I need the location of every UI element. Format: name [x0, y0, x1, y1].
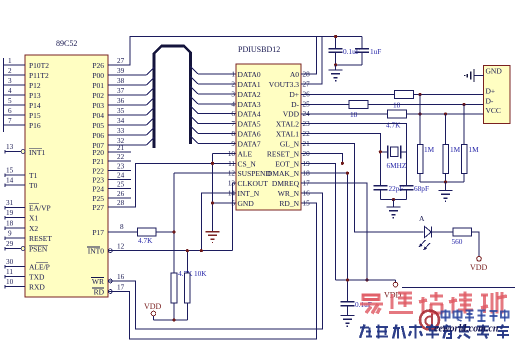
ground (reset cap) [340, 316, 354, 327]
wire EOT_N down to RC line [301, 163, 336, 280]
watermark red text 2nd char [389, 293, 413, 313]
svg-text:89C52: 89C52 [56, 39, 77, 48]
svg-text:GND: GND [486, 67, 503, 76]
svg-text:WR: WR [92, 277, 104, 286]
IC U1 89C52 body [25, 55, 108, 297]
wire P05 bus entry [108, 118, 154, 126]
svg-text:39: 39 [117, 67, 125, 75]
wire DATA1 bus exit [191, 76, 237, 84]
svg-text:PSEN: PSEN [29, 245, 48, 254]
wire VCC line to connector [406, 112, 483, 115]
watermark red text 3rd char [419, 292, 443, 314]
svg-text:1M: 1M [450, 145, 461, 154]
svg-text:PDIUSBD12: PDIUSBD12 [238, 45, 280, 54]
svg-text:P27: P27 [92, 203, 104, 212]
svg-text:3: 3 [8, 77, 12, 85]
wire VOUT3.3 up to top rail [301, 37, 322, 84]
junction CS_N tie [211, 162, 214, 165]
pin 4 DATA3 / pin 25 D- [231, 100, 310, 109]
capacitor 68pF [399, 184, 429, 200]
svg-text:13: 13 [228, 180, 236, 188]
watermark blue text char4 [409, 325, 422, 339]
svg-text:5: 5 [8, 97, 12, 105]
svg-text:16: 16 [117, 273, 125, 281]
svg-text:RD_N: RD_N [279, 199, 299, 208]
pin 2 DATA1 / pin 27 VOUT3.3 [231, 80, 310, 89]
ground (top caps) [329, 65, 343, 81]
watermark blue text char8 [477, 325, 489, 339]
pin 11 CS_N / pin 19 EOT_N [228, 159, 310, 168]
svg-text:35: 35 [117, 107, 125, 115]
pin 9 DATA7 / pin 21 GL_N [231, 140, 310, 149]
capacitor 0.1uF (reset) [340, 278, 371, 315]
pin 2 P11 [4, 67, 49, 80]
LED D1 (GoodLink) [419, 214, 432, 250]
svg-text:VCC: VCC [486, 106, 501, 115]
pin 7 DATA5 / pin 23 XTAL2 [231, 120, 310, 129]
wire P17 resistor to SUSPEND junction [156, 231, 174, 233]
wire CLKOUT down to INT0 [233, 183, 237, 250]
pin 28 P27 name/number [92, 199, 124, 212]
svg-text:1: 1 [8, 57, 12, 65]
watermark red text 5th char [481, 292, 507, 314]
svg-text:INT_N: INT_N [238, 189, 260, 198]
svg-text:68pF: 68pF [414, 184, 429, 193]
wire VCC junction down to 1M R2 [445, 114, 447, 145]
svg-text:P11T2: P11T2 [29, 71, 49, 80]
wire P07 bus entry [108, 138, 154, 146]
svg-text:P14: P14 [29, 101, 41, 110]
capacitor 22pF [373, 184, 403, 200]
wire P26/pin27 to top rail [108, 37, 362, 66]
svg-text:9: 9 [8, 230, 12, 238]
svg-text:A: A [419, 214, 425, 223]
svg-text:30: 30 [6, 258, 14, 266]
pin 26 P25 name/number [92, 190, 124, 203]
crystal Y1 6MHZ [387, 146, 407, 171]
svg-text:6: 6 [231, 110, 235, 118]
svg-text:19: 19 [6, 209, 14, 217]
pin 32 P07 name/number [92, 137, 124, 150]
svg-text:3: 3 [231, 90, 235, 98]
wire DATA3 bus exit [191, 96, 237, 104]
pin 1 DATA0 / pin 28 A0 [231, 70, 310, 79]
pin 8 DATA6 / pin 22 XTAL1 [231, 130, 310, 139]
node P1 port bar (left) [3, 58, 5, 132]
svg-text:P15: P15 [29, 111, 41, 120]
pin 24 P23 name/number [92, 172, 124, 185]
pin 23 P22 name/number [92, 162, 124, 175]
wire P03 bus entry [108, 98, 154, 106]
pin 4 P13 [4, 87, 41, 100]
pin 37 P02 name/number [92, 87, 124, 100]
pin 5 P14 [4, 97, 41, 110]
pin 16 WR name/number (inverted) [91, 273, 125, 286]
wire P17 lead [108, 231, 138, 233]
svg-text:DATA5: DATA5 [238, 120, 261, 129]
wire cap bottoms rail [334, 63, 362, 66]
wire D- junction down to 1M R3 [463, 105, 465, 145]
svg-text:1M: 1M [469, 145, 480, 154]
svg-text:1: 1 [231, 71, 235, 79]
capacitor 1uF (decoupling, top) [355, 37, 381, 65]
svg-text:29: 29 [6, 240, 14, 248]
pin 6 DATA4 / pin 24 VDD [231, 110, 310, 119]
svg-text:4: 4 [8, 87, 12, 95]
svg-text:P21: P21 [92, 157, 104, 166]
svg-text:38: 38 [117, 77, 125, 85]
svg-text:11: 11 [6, 268, 13, 276]
svg-text:eeworld.com.cn: eeworld.com.cn [434, 324, 499, 335]
ground (crystal caps) [386, 200, 400, 218]
svg-text:RD: RD [94, 288, 105, 297]
watermark red text 1st char [360, 295, 383, 314]
svg-text:P17: P17 [92, 228, 104, 237]
watermark blue text char2 [376, 325, 388, 339]
svg-text:4: 4 [231, 100, 235, 108]
svg-text:EA/VP: EA/VP [29, 204, 51, 213]
svg-text:VOUT3.3: VOUT3.3 [269, 80, 299, 89]
pin 1 P10 [4, 57, 50, 70]
pin 3 DATA2 / pin 26 D+ [231, 90, 310, 99]
svg-text:DATA4: DATA4 [238, 110, 261, 119]
svg-text:P03: P03 [92, 101, 104, 110]
wire DATA4 bus exit [191, 106, 237, 114]
watermark blue text char6 [443, 325, 452, 339]
wire DATA7 bus exit [191, 136, 237, 144]
svg-text:10K: 10K [194, 269, 207, 278]
wire INT_N down to INT0 [201, 193, 236, 251]
svg-text:17: 17 [117, 284, 125, 292]
svg-text:14: 14 [228, 190, 236, 198]
pin 36 P03 name/number [92, 97, 124, 110]
watermark logo ring [420, 311, 439, 330]
pin 13 INT1 (inverted) [5, 143, 45, 157]
svg-text:CS_N: CS_N [238, 159, 257, 168]
wire pull-up bottoms to VDD [154, 303, 188, 321]
wire P06 bus entry [108, 128, 154, 136]
junction P17/SUSPEND [172, 230, 175, 233]
resistor 1M (third) [461, 145, 479, 174]
pin 39 P00 name/number [92, 67, 124, 80]
pin 34 P05 name/number [92, 117, 124, 130]
svg-text:RXD: RXD [29, 283, 45, 292]
earth ground (connector) [465, 69, 474, 82]
pin 30 ALE/P [5, 258, 50, 272]
svg-text:26: 26 [117, 190, 125, 198]
svg-text:RESET_N: RESET_N [267, 149, 300, 158]
svg-text:2: 2 [8, 67, 12, 75]
svg-text:ALE: ALE [238, 149, 253, 158]
svg-text:DATA6: DATA6 [238, 130, 261, 139]
connector J1 USB body [484, 66, 511, 124]
wire bottom right (cropped) [402, 287, 515, 289]
svg-text:VDD: VDD [470, 263, 488, 272]
svg-text:15: 15 [303, 200, 311, 208]
resistor 10K pull-up [185, 269, 208, 303]
wire DMREQ down to RC line [301, 183, 369, 281]
svg-text:33: 33 [117, 127, 125, 135]
svg-text:37: 37 [117, 87, 125, 95]
svg-text:D-: D- [486, 97, 494, 106]
pin D+ (connector) [486, 87, 496, 96]
wire P27 to CS_N [108, 163, 236, 207]
svg-text:6: 6 [8, 107, 12, 115]
pin 18 X2 [5, 220, 38, 234]
svg-text:RESET: RESET [29, 234, 52, 243]
svg-text:7: 7 [8, 117, 12, 125]
wire RESET_N tie to EOT [301, 153, 344, 165]
pin 10 ALE / pin 20 RESET_N [228, 149, 310, 158]
pin 21 P20 name/number [92, 144, 124, 157]
wire DATA5 bus exit [191, 116, 237, 124]
resistor 1M (second) [443, 145, 461, 174]
svg-text:T1: T1 [29, 171, 38, 180]
wire DATA0 bus exit [191, 67, 237, 75]
svg-text:EOT_N: EOT_N [275, 159, 299, 168]
wire WR to WR_N (around bottom) [108, 193, 322, 329]
svg-text:11: 11 [228, 160, 235, 168]
svg-text:D+: D+ [289, 90, 299, 99]
svg-text:24: 24 [117, 172, 125, 180]
watermark logo blue text [442, 310, 509, 322]
pin 14 T0 [5, 177, 38, 191]
svg-text:18: 18 [6, 220, 14, 228]
pin 12 INT0 name/number (inverted) [87, 243, 125, 256]
svg-text:10: 10 [228, 150, 236, 158]
svg-text:DMREQ: DMREQ [272, 179, 300, 188]
resistor 560 [452, 228, 472, 246]
pin 19 X1 [5, 209, 38, 223]
resistor 1M (first) [417, 145, 434, 174]
svg-text:15: 15 [6, 167, 14, 175]
wire 1M bottoms rail [420, 173, 464, 183]
svg-text:WR_N: WR_N [278, 189, 300, 198]
wire 560 to VDD [472, 232, 480, 256]
svg-text:XTAL1: XTAL1 [276, 130, 299, 139]
svg-text:34: 34 [117, 117, 125, 125]
svg-text:CLKOUT: CLKOUT [238, 179, 269, 188]
svg-text:GND: GND [238, 199, 255, 208]
svg-text:P01: P01 [92, 81, 104, 90]
svg-text:4.7K: 4.7K [138, 236, 153, 245]
pin 35 P04 name/number [92, 107, 124, 120]
wire SUSPEND vertical + pullup feed [174, 173, 236, 273]
svg-text:P04: P04 [92, 111, 104, 120]
resistor 4.7K (VDD to VCC) [386, 110, 406, 130]
junction GND tie [211, 201, 214, 204]
wire DATA6 bus exit [191, 126, 237, 134]
IC U2 PDIUSBD12 body [236, 64, 301, 210]
wire DATA2 bus exit [191, 86, 237, 94]
wire P20 stub [108, 151, 131, 153]
wire P04 bus entry [108, 108, 154, 116]
svg-text:T0: T0 [29, 181, 38, 190]
svg-text:P24: P24 [92, 185, 104, 194]
svg-text:P25: P25 [92, 194, 104, 203]
svg-text:1uF: 1uF [370, 47, 381, 56]
watermark red text 4th char [449, 292, 473, 314]
watermark blue text char7 [458, 325, 470, 339]
svg-text:P06: P06 [92, 131, 104, 140]
wire P01 bus entry [108, 78, 154, 86]
svg-text:X2: X2 [29, 224, 38, 233]
wire RC reset line [336, 279, 396, 281]
ground (below PDIUSBD12 GND pin) [206, 232, 220, 243]
svg-text:VDD: VDD [144, 302, 162, 311]
watermark blue text char3 [393, 325, 405, 339]
watermark blue text char5 [426, 325, 439, 339]
svg-text:31: 31 [6, 199, 14, 207]
svg-text:GL_N: GL_N [280, 140, 300, 149]
svg-text:DATA7: DATA7 [238, 140, 261, 149]
svg-text:9: 9 [231, 140, 235, 148]
svg-text:INT1: INT1 [29, 148, 45, 157]
wire XTAL2 to crystal [301, 124, 406, 186]
svg-text:25: 25 [117, 181, 125, 189]
wire ALE / CS_N / GND vertical [213, 153, 237, 231]
svg-text:16: 16 [303, 190, 311, 198]
wire P21 stub [108, 160, 131, 162]
pin 17 RD name/number (inverted) [92, 284, 125, 297]
svg-text:8: 8 [231, 130, 235, 138]
pin 7 P16 [4, 117, 41, 130]
wire GL_N to LED [301, 144, 424, 232]
wire INT0 line [108, 250, 233, 252]
svg-text:6MHZ: 6MHZ [387, 161, 407, 170]
svg-text:28: 28 [117, 199, 125, 207]
wire LED to resistor 560 [432, 231, 454, 233]
wire P23 stub [108, 179, 131, 181]
pin 12 SUSPEND / pin 18 DMAK_N [228, 169, 310, 178]
svg-text:P23: P23 [92, 176, 104, 185]
wire D- to connector [368, 103, 484, 106]
pin 8 P17 name/number [92, 223, 124, 237]
svg-text:23: 23 [117, 162, 125, 170]
wire crystal caps rail [380, 198, 406, 201]
label 89C52 [56, 39, 77, 48]
resistor 4.7K pull-up [171, 269, 193, 303]
wire D+ junction down to 1M R1 [419, 95, 421, 145]
pin 6 P15 [4, 107, 41, 120]
bus D0-D7 (thick) [154, 46, 191, 148]
pin VCC (connector) [486, 106, 501, 115]
pin 3 P12 [4, 77, 41, 90]
svg-text:1M: 1M [424, 145, 435, 154]
pin 29 PSEN (inverted) [5, 240, 48, 254]
wire P25 stub [108, 197, 131, 199]
power VDD (pull-ups) [144, 302, 162, 316]
power VDD (reset) [384, 280, 402, 300]
wire P02 bus entry [108, 88, 154, 96]
svg-text:DATA1: DATA1 [238, 80, 261, 89]
svg-text:2: 2 [231, 80, 235, 88]
svg-text:P26: P26 [92, 61, 104, 70]
pin 38 P01 name/number [92, 77, 124, 90]
pin 27 P26 name/number [92, 57, 124, 70]
svg-text:DMAK_N: DMAK_N [267, 169, 300, 178]
wire P22 stub [108, 169, 131, 171]
net D- : wire chip to series resistor [301, 104, 349, 106]
svg-text:DATA0: DATA0 [238, 70, 261, 79]
wire XTAL1 to crystal [301, 134, 388, 186]
svg-text:X1: X1 [29, 214, 38, 223]
svg-text:5: 5 [231, 200, 235, 208]
svg-text:A0: A0 [290, 70, 299, 79]
wire RD to RD_N (around bottom) [108, 203, 317, 339]
svg-text:P20: P20 [92, 148, 104, 157]
wire P24 stub [108, 188, 131, 190]
resistor 4.7K (P17 series) [138, 228, 157, 245]
watermark blue text char9 [497, 325, 509, 339]
wire A0 up to top rail [301, 37, 317, 75]
net VDD/VCC : wire chip to resistor [301, 113, 388, 115]
ground (1M rail) [439, 182, 453, 201]
svg-text:14: 14 [6, 177, 14, 185]
svg-text:P22: P22 [92, 166, 104, 175]
wire DMAK_N down to RC cap [301, 172, 349, 280]
svg-text:DATA2: DATA2 [238, 90, 261, 99]
svg-text:27: 27 [117, 57, 125, 65]
watermark blue text char1 [360, 325, 372, 339]
pin 31 EA/VP [5, 199, 51, 213]
svg-text:P10T2: P10T2 [29, 61, 49, 70]
svg-text:INT0: INT0 [88, 247, 104, 256]
svg-text:P13: P13 [29, 91, 41, 100]
svg-text:36: 36 [117, 97, 125, 105]
svg-text:P16: P16 [29, 121, 41, 130]
power VDD (LED) [470, 257, 488, 273]
svg-text:22: 22 [117, 153, 125, 161]
svg-text:XTAL2: XTAL2 [276, 120, 299, 129]
pin 33 P06 name/number [92, 127, 124, 140]
wire P00 bus entry [108, 68, 154, 76]
svg-text:DATA3: DATA3 [238, 100, 261, 109]
resistor 18 (D+ series) [393, 91, 414, 110]
pin D- (connector) [486, 97, 494, 106]
svg-text:P00: P00 [92, 71, 104, 80]
pin 25 P24 name/number [92, 181, 124, 194]
svg-text:D+: D+ [486, 87, 496, 96]
pin 13 CLKOUT / pin 17 DMREQ [228, 179, 310, 188]
svg-text:10: 10 [6, 278, 14, 286]
pin 14 INT_N / pin 16 WR_N [228, 189, 310, 198]
svg-text:23: 23 [303, 120, 311, 128]
junction INT_N/INT0 [200, 249, 203, 252]
wire 10K top lead to INT0 [186, 249, 189, 273]
pin 10 RXD [5, 278, 45, 292]
svg-text:D-: D- [291, 100, 299, 109]
pin 11 TXD [5, 268, 45, 282]
svg-text:P05: P05 [92, 121, 104, 130]
pin 22 P21 name/number [92, 153, 124, 166]
svg-text:560: 560 [452, 237, 463, 246]
pin 5 GND / pin 15 RD_N [231, 199, 310, 208]
svg-text:4.7K: 4.7K [386, 121, 401, 130]
svg-text:P02: P02 [92, 91, 104, 100]
svg-text:12: 12 [228, 170, 236, 178]
resistor 18 (D- series) [349, 101, 368, 120]
label PDIUSBD12 [238, 45, 280, 54]
watermark eeworld url [434, 324, 499, 335]
svg-text:13: 13 [6, 143, 14, 151]
svg-text:ALE/P: ALE/P [29, 263, 50, 272]
pin 9 RESET [5, 230, 52, 244]
svg-text:7: 7 [231, 120, 235, 128]
net D+ : wire chip to series resistor [301, 94, 395, 96]
svg-text:TXD: TXD [29, 273, 45, 282]
svg-text:8: 8 [120, 223, 124, 231]
